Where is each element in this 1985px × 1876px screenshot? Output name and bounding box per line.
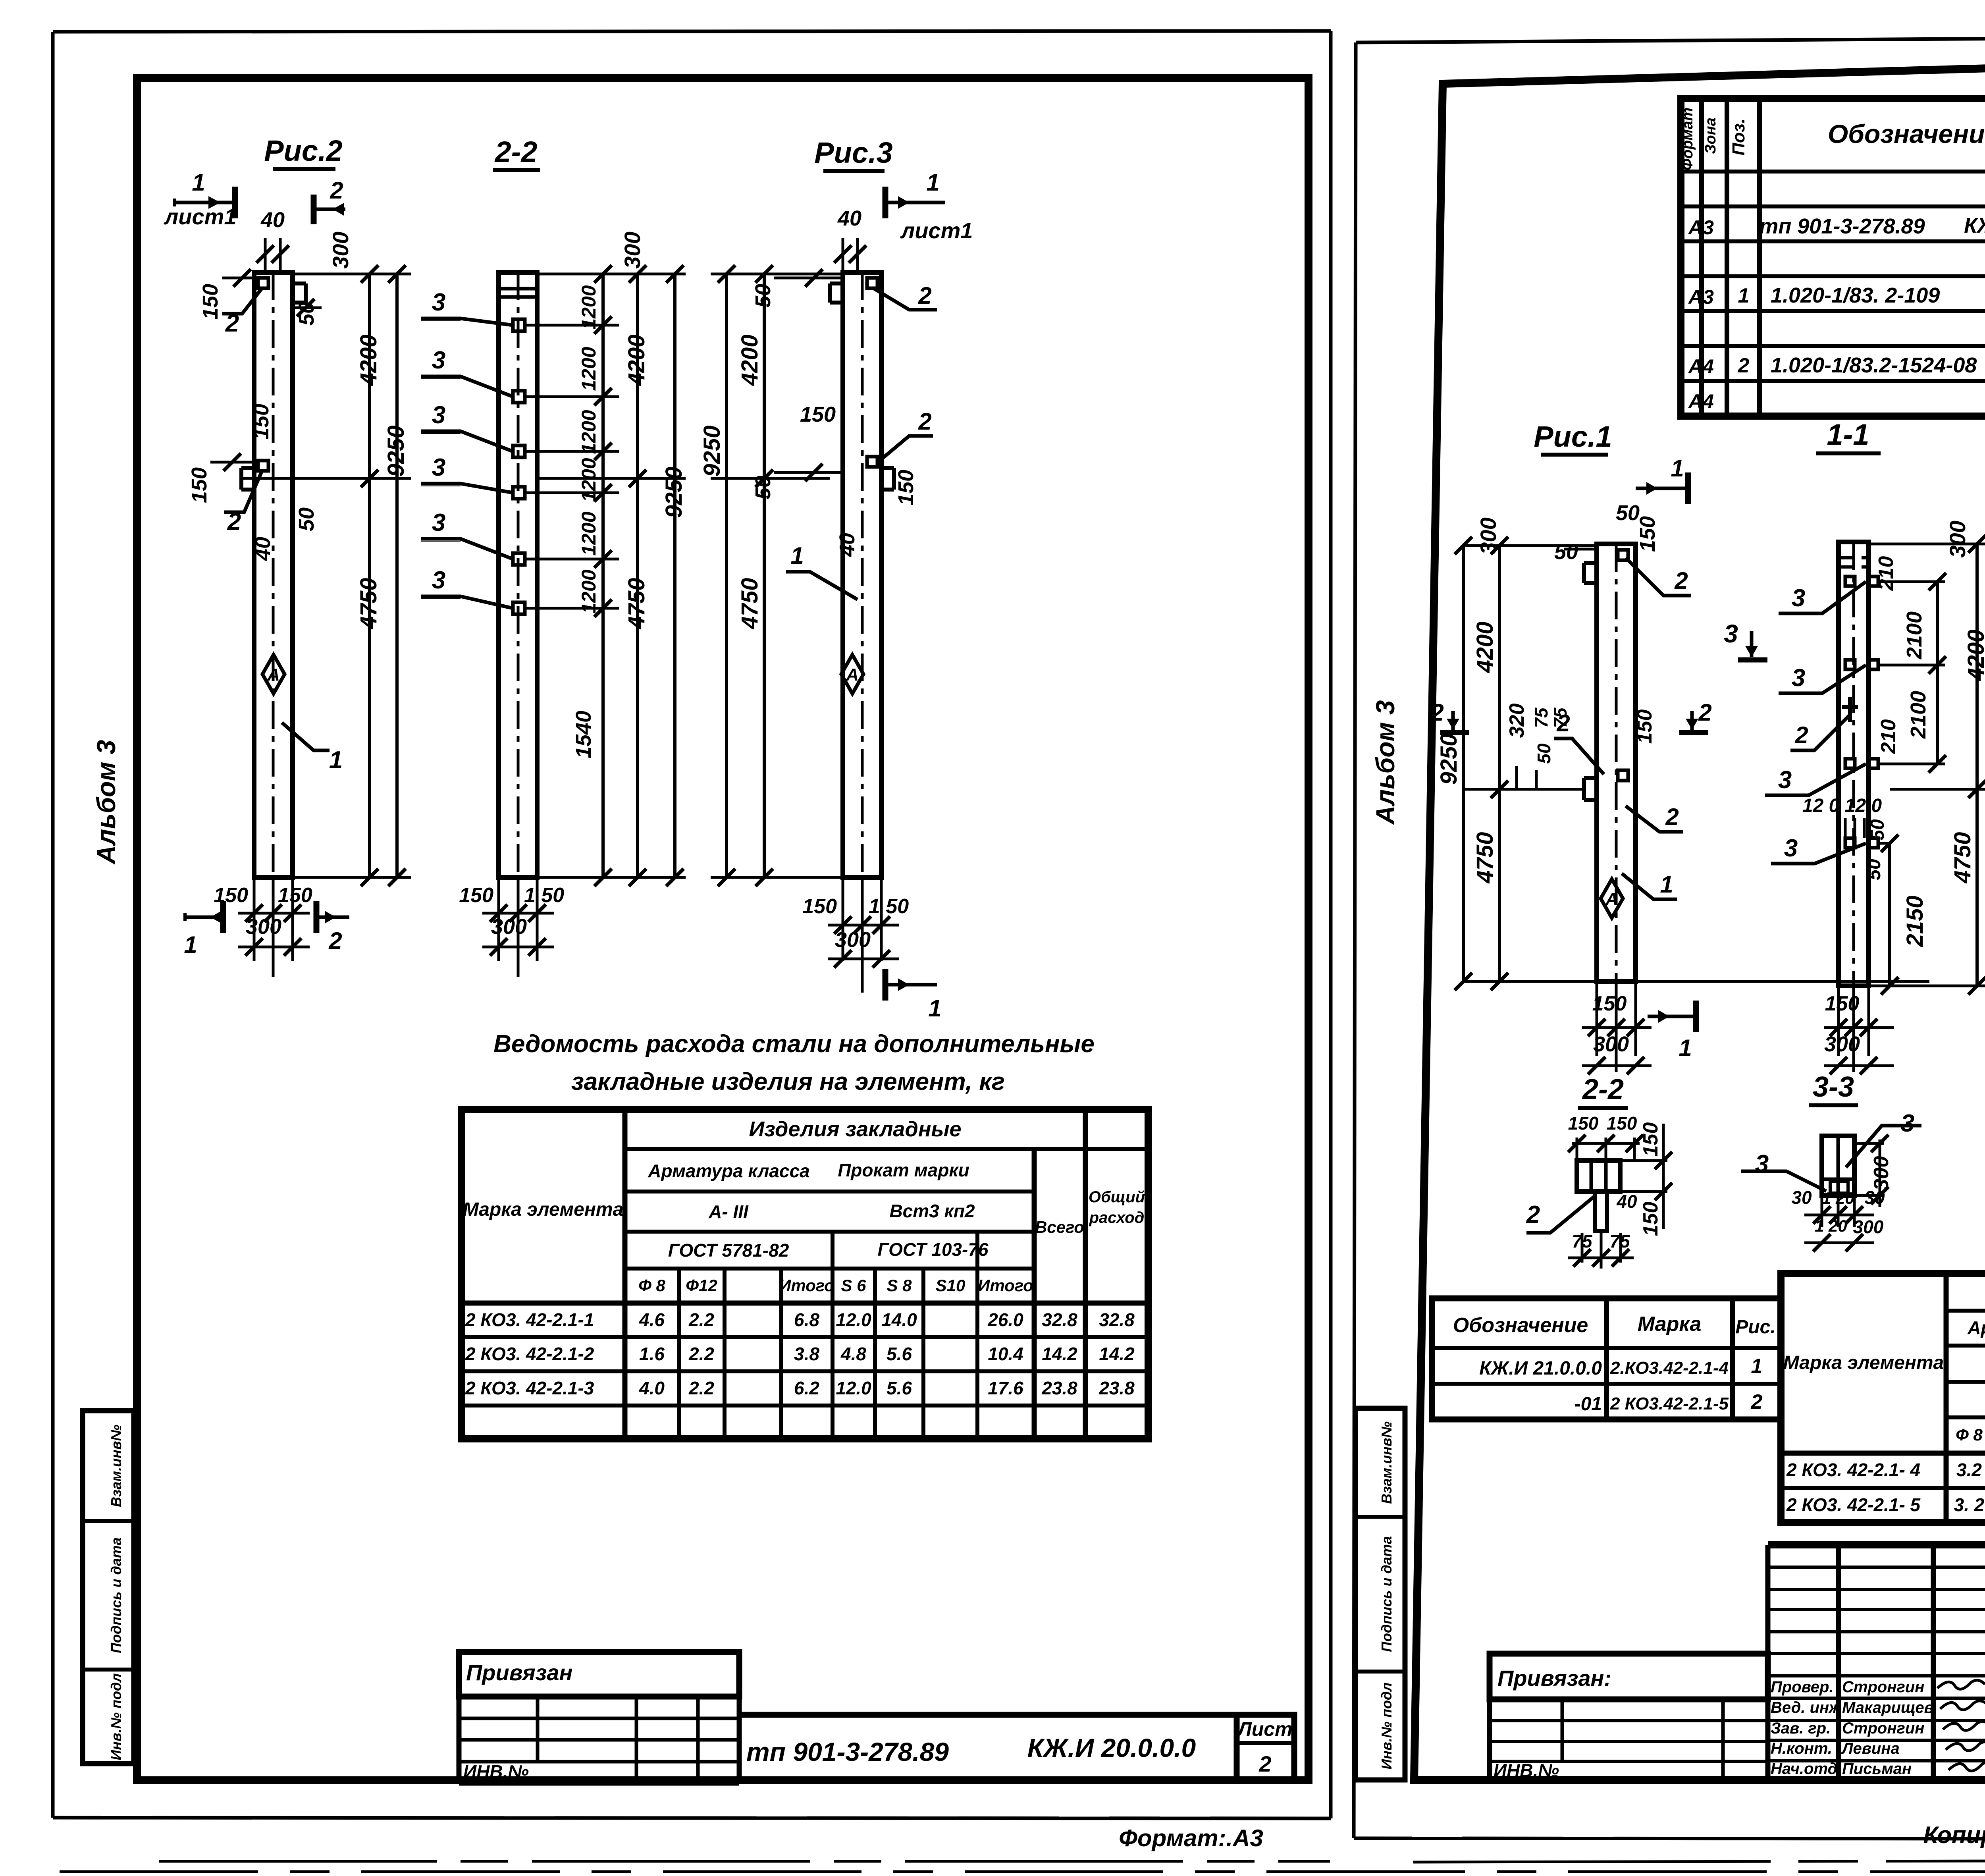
svg-text:2150: 2150 bbox=[1902, 895, 1928, 947]
svg-text:1200: 1200 bbox=[578, 347, 600, 391]
svg-text:Рис.3: Рис.3 bbox=[814, 136, 892, 169]
right title block top line bbox=[1768, 1541, 1985, 1548]
svg-text:150: 150 bbox=[198, 284, 222, 320]
svg-text:2: 2 bbox=[1674, 567, 1688, 594]
svg-text:17.6: 17.6 bbox=[988, 1378, 1023, 1398]
svg-text:Альбом 3: Альбом 3 bbox=[1370, 700, 1400, 825]
Рис.1 section mark 1 bottom bbox=[1648, 1015, 1695, 1018]
svg-text:Изделия закладные: Изделия закладные bbox=[749, 1117, 961, 1141]
svg-text:2100: 2100 bbox=[1902, 611, 1926, 659]
svg-text:1: 1 bbox=[1671, 455, 1684, 482]
Рис.1 section mark 1 top bbox=[1636, 487, 1687, 490]
svg-text:1: 1 bbox=[329, 746, 343, 774]
svg-text:3: 3 bbox=[1784, 835, 1798, 862]
1-1 leader 3 (1) bbox=[1779, 582, 1866, 613]
Рис.3 column body bbox=[843, 272, 881, 877]
2-2 column body bbox=[499, 272, 537, 877]
svg-text:4.0: 4.0 bbox=[639, 1378, 665, 1398]
svg-text:300: 300 bbox=[1945, 521, 1970, 557]
1-1 embed plate 3 bbox=[1845, 759, 1855, 768]
svg-text:2: 2 bbox=[1430, 699, 1443, 726]
svg-text:300: 300 bbox=[1593, 1032, 1629, 1056]
1-1 embed plate 4 bbox=[1845, 838, 1855, 848]
1-1 top cap dashed lines bbox=[1839, 556, 1869, 559]
svg-text:12 0 12 0: 12 0 12 0 bbox=[1802, 795, 1882, 816]
svg-text:14.0: 14.0 bbox=[881, 1309, 917, 1330]
svg-text:Копировал: Алешикова: Копировал: Алешикова bbox=[1923, 1822, 1985, 1848]
Рис.3 section mark 1 лист1 top bbox=[886, 201, 945, 204]
2-2 leader 3 (6) bbox=[421, 596, 513, 608]
svg-text:Зона: Зона bbox=[1702, 118, 1719, 154]
Рис.1 marker diamond А bbox=[1601, 879, 1623, 918]
svg-text:320: 320 bbox=[1505, 704, 1528, 738]
Рис.1 centerline bbox=[1615, 544, 1618, 981]
svg-text:1: 1 bbox=[1660, 871, 1673, 898]
svg-text:Привязан:: Привязан: bbox=[1497, 1666, 1611, 1691]
svg-text:40: 40 bbox=[835, 533, 859, 557]
Рис.2 centerline bbox=[272, 272, 275, 877]
svg-text:4750: 4750 bbox=[1950, 832, 1975, 883]
Рис.3 leader 1 bbox=[786, 572, 858, 600]
Рис.3 extension lines left bbox=[711, 273, 843, 276]
2-2 leader 2 bbox=[1526, 1195, 1596, 1233]
Рис.2 embed plate mid bbox=[258, 461, 268, 471]
2-2 leader 3 (2) bbox=[421, 376, 513, 397]
Рис.3 leader 2 mid bbox=[877, 436, 933, 463]
svg-text:2: 2 bbox=[328, 927, 342, 954]
svg-text:Письман: Письман bbox=[1842, 1760, 1912, 1778]
svg-text:4.8: 4.8 bbox=[840, 1344, 866, 1364]
2-2 bottom dims bbox=[497, 877, 500, 961]
svg-text:3: 3 bbox=[432, 567, 445, 594]
svg-text:А: А bbox=[846, 665, 859, 684]
svg-text:10.4: 10.4 bbox=[988, 1344, 1023, 1364]
2-2 embed plate 6 bbox=[513, 602, 525, 614]
svg-text:150: 150 bbox=[214, 884, 248, 907]
svg-text:Привязан: Привязан bbox=[466, 1660, 572, 1685]
svg-text:150: 150 bbox=[1639, 1122, 1662, 1157]
svg-text:S10: S10 bbox=[936, 1276, 966, 1295]
svg-text:9250: 9250 bbox=[1436, 733, 1462, 785]
svg-text:50: 50 bbox=[1534, 743, 1554, 764]
2-2 section stem bbox=[1595, 1192, 1607, 1231]
Рис.3 leader 2 top bbox=[873, 288, 937, 310]
svg-text:ГОСТ 5781-82: ГОСТ 5781-82 bbox=[668, 1240, 789, 1261]
2-2 centerline bbox=[517, 272, 520, 877]
svg-text:3: 3 bbox=[432, 401, 445, 429]
right bottom small grid bbox=[1490, 1719, 1768, 1722]
svg-text:1200: 1200 bbox=[578, 410, 600, 454]
svg-text:150: 150 bbox=[800, 403, 836, 426]
3-3 leader 3 top bbox=[1846, 1126, 1921, 1167]
svg-text:2: 2 bbox=[225, 310, 239, 337]
svg-text:3: 3 bbox=[1724, 619, 1738, 648]
svg-text:1: 1 bbox=[790, 542, 804, 569]
svg-text:3. 2: 3. 2 bbox=[1954, 1494, 1985, 1515]
Рис.3 section mark 1 bottom bbox=[886, 983, 937, 987]
svg-text:2: 2 bbox=[330, 177, 343, 204]
svg-text:12.0: 12.0 bbox=[836, 1378, 871, 1398]
svg-text:4200: 4200 bbox=[1472, 621, 1498, 673]
svg-text:Марка элемента: Марка элемента bbox=[463, 1199, 624, 1220]
svg-text:Общий: Общий bbox=[1089, 1188, 1145, 1206]
svg-text:тп 901-3-278.89: тп 901-3-278.89 bbox=[746, 1737, 949, 1766]
svg-text:КЖ.И ТУ: КЖ.И ТУ bbox=[1964, 214, 1985, 237]
svg-text:тп 901-3-278.89: тп 901-3-278.89 bbox=[1759, 214, 1925, 238]
svg-text:Макарищев: Макарищев bbox=[1842, 1699, 1934, 1716]
Рис.1 leader 2 mid bbox=[1554, 738, 1604, 774]
Рис.2 bottom dims bbox=[253, 877, 256, 961]
svg-text:Формат:.А3: Формат:.А3 bbox=[1119, 1825, 1263, 1851]
svg-text:1200: 1200 bbox=[578, 511, 600, 555]
svg-text:1540: 1540 bbox=[572, 711, 595, 758]
svg-text:А4: А4 bbox=[1688, 355, 1714, 378]
1-1 leader 3 (2) bbox=[1779, 665, 1866, 693]
svg-text:300: 300 bbox=[328, 231, 353, 268]
svg-text:лист1: лист1 bbox=[900, 218, 973, 243]
1-1 dim 2150 bbox=[1888, 843, 1891, 986]
svg-text:50: 50 bbox=[295, 507, 318, 531]
svg-text:1-1: 1-1 bbox=[1827, 418, 1869, 451]
left bottom cut line bbox=[159, 1860, 1330, 1863]
2-2 leader 3 (1) bbox=[421, 318, 513, 325]
Рис.1 leader 2 top bbox=[1626, 558, 1691, 596]
Рис.2 leader 2 mid bbox=[224, 471, 262, 512]
spec table outline bbox=[1681, 98, 1985, 416]
svg-text:1: 1 bbox=[928, 995, 941, 1022]
2-2 top cap lines bbox=[499, 287, 537, 291]
2-2 leader 3 (3) bbox=[421, 431, 513, 451]
svg-text:Ф 8: Ф 8 bbox=[638, 1276, 665, 1295]
embed items table outline bbox=[1781, 1274, 1985, 1523]
svg-text:ГОСТ 103-76: ГОСТ 103-76 bbox=[878, 1239, 989, 1260]
svg-text:2: 2 bbox=[1665, 804, 1679, 830]
spec table verticals bbox=[1699, 98, 1704, 416]
svg-text:Ведомость расхода стали на доп: Ведомость расхода стали на дополнительны… bbox=[493, 1030, 1095, 1058]
svg-text:ИНВ.№: ИНВ.№ bbox=[1494, 1760, 1559, 1781]
svg-text:300: 300 bbox=[620, 231, 645, 268]
svg-text:Обозначение: Обозначение bbox=[1828, 119, 1985, 148]
svg-text:Зав. гр.: Зав. гр. bbox=[1771, 1720, 1831, 1737]
Рис.2 marker diamond А bbox=[262, 655, 285, 694]
Рис.2 embed plate top bbox=[258, 278, 268, 288]
left Лист box bbox=[1237, 1715, 1294, 1780]
svg-text:2: 2 bbox=[1738, 354, 1750, 377]
1-1 leader 3 (4) bbox=[1771, 843, 1866, 864]
svg-text:150: 150 bbox=[1633, 710, 1656, 744]
svg-text:Формат: Формат bbox=[1679, 108, 1696, 171]
svg-text:150: 150 bbox=[894, 470, 918, 505]
svg-text:1.020-1/83. 2-109: 1.020-1/83. 2-109 bbox=[1771, 283, 1940, 307]
svg-text:150: 150 bbox=[1568, 1113, 1599, 1134]
svg-text:2: 2 bbox=[227, 508, 241, 536]
Рис.2 section mark 1 bottom bbox=[183, 913, 187, 921]
1-1 leader 2 mid bbox=[1790, 715, 1850, 750]
Рис.3 column mid step right bbox=[881, 466, 894, 470]
svg-text:50: 50 bbox=[1864, 859, 1885, 880]
Рис.2 extension lines right bbox=[293, 273, 411, 276]
2-2 leader 3 (5) bbox=[421, 539, 513, 559]
svg-text:150: 150 bbox=[802, 895, 837, 918]
2-2 extension lines bbox=[537, 273, 686, 276]
svg-text:2: 2 bbox=[918, 282, 931, 309]
Рис.1 embed plate mid bbox=[1618, 770, 1628, 781]
2-2 dim line 4200/4750 bbox=[636, 274, 639, 478]
designation table grid bbox=[1432, 1298, 1781, 1419]
svg-text:1 50: 1 50 bbox=[524, 884, 564, 907]
1-1 centerline bbox=[1852, 542, 1855, 986]
svg-text:2 КО3. 42-2.1- 5: 2 КО3. 42-2.1- 5 bbox=[1786, 1494, 1921, 1515]
svg-text:1 50: 1 50 bbox=[869, 895, 909, 918]
svg-text:23.8: 23.8 bbox=[1098, 1378, 1135, 1398]
svg-text:32.8: 32.8 bbox=[1099, 1309, 1135, 1330]
svg-text:300: 300 bbox=[1853, 1217, 1884, 1237]
Рис.1 leader 2 lower bbox=[1626, 806, 1683, 832]
Рис.2 section mark 2 bottom bbox=[317, 916, 349, 919]
1-1 bottom dims bbox=[1837, 986, 1840, 1056]
svg-text:2-2: 2-2 bbox=[494, 135, 538, 168]
Рис.2 leader 1 bbox=[282, 723, 330, 750]
svg-text:2 КО3.42-2.1-5: 2 КО3.42-2.1-5 bbox=[1610, 1394, 1729, 1413]
svg-text:9250: 9250 bbox=[661, 467, 687, 518]
svg-text:Взам.инв№: Взам.инв№ bbox=[108, 1425, 124, 1507]
svg-text:Нач.отд: Нач.отд bbox=[1771, 1760, 1837, 1778]
svg-text:Прокат марки: Прокат марки bbox=[838, 1160, 969, 1180]
Рис.2 dim line 9250 bbox=[395, 274, 399, 877]
svg-text:40: 40 bbox=[251, 537, 275, 561]
svg-text:расход: расход bbox=[1089, 1209, 1145, 1226]
svg-text:Обозначение: Обозначение bbox=[1453, 1314, 1588, 1337]
Рис.3 dim line 4200/4750 bbox=[763, 274, 766, 478]
svg-text:1: 1 bbox=[926, 169, 939, 196]
svg-text:3: 3 bbox=[1755, 1150, 1769, 1178]
Рис.3 bottom dims bbox=[842, 877, 844, 961]
Рис.1 dim line 9250 bbox=[1462, 546, 1465, 981]
svg-text:50: 50 bbox=[1867, 819, 1888, 841]
Рис.1 leader 1 bbox=[1622, 873, 1677, 899]
svg-text:6.8: 6.8 bbox=[794, 1309, 819, 1330]
svg-text:3: 3 bbox=[1792, 664, 1805, 692]
svg-text:закладные изделия на элемент,: закладные изделия на элемент, кг bbox=[571, 1068, 1005, 1095]
svg-text:6.2: 6.2 bbox=[794, 1378, 819, 1398]
right sheet stamp column bbox=[1355, 1408, 1405, 1780]
svg-text:4200: 4200 bbox=[356, 334, 382, 386]
svg-text:Альбом 3: Альбом 3 bbox=[91, 740, 121, 865]
Рис.1 mid step left bbox=[1584, 776, 1597, 780]
Рис.1 extension lines left bbox=[1463, 544, 1597, 547]
Рис.3 centerline bbox=[861, 272, 864, 877]
Рис.1 column body bbox=[1597, 544, 1636, 981]
svg-text:1200: 1200 bbox=[578, 569, 600, 613]
left sheet outer border bbox=[53, 31, 1331, 32]
svg-text:А3: А3 bbox=[1688, 286, 1714, 308]
svg-text:Провер.: Провер. bbox=[1771, 1678, 1834, 1696]
svg-text:1.6: 1.6 bbox=[639, 1344, 665, 1364]
svg-text:150: 150 bbox=[249, 404, 273, 440]
svg-text:2 КО3. 42-2.1-3: 2 КО3. 42-2.1-3 bbox=[465, 1378, 594, 1398]
3-3 section body bbox=[1822, 1136, 1854, 1195]
svg-text:2: 2 bbox=[1751, 1390, 1763, 1413]
svg-text:32.8: 32.8 bbox=[1042, 1309, 1077, 1330]
svg-text:1200: 1200 bbox=[578, 458, 600, 502]
svg-text:3.8: 3.8 bbox=[794, 1344, 819, 1364]
Рис.2 section mark 2 top bbox=[311, 195, 317, 224]
svg-text:Рис.1: Рис.1 bbox=[1534, 420, 1612, 453]
svg-text:2 КО3. 42-2.1-1: 2 КО3. 42-2.1-1 bbox=[465, 1309, 594, 1330]
svg-text:Поз.: Поз. bbox=[1729, 118, 1748, 155]
svg-text:150: 150 bbox=[1636, 516, 1659, 552]
svg-text:Арматура класса: Арматура класса bbox=[648, 1161, 810, 1181]
svg-text:210: 210 bbox=[1875, 556, 1898, 591]
svg-text:Вед. инж: Вед. инж bbox=[1771, 1699, 1842, 1716]
svg-text:1: 1 bbox=[184, 931, 197, 958]
right sheet inner frame bbox=[1414, 52, 1985, 1780]
svg-text:Итого: Итого bbox=[978, 1276, 1033, 1295]
svg-text:Взам.инв№: Взам.инв№ bbox=[1378, 1421, 1395, 1504]
svg-text:300: 300 bbox=[1870, 1156, 1893, 1191]
svg-text:Арматура класса: Арматура класса bbox=[1967, 1317, 1985, 1338]
svg-text:Стронгин: Стронгин bbox=[1842, 1678, 1924, 1696]
svg-text:Итого: Итого bbox=[779, 1276, 834, 1295]
svg-text:4.6: 4.6 bbox=[639, 1309, 665, 1330]
2-2 leader 3 (4) bbox=[421, 484, 513, 493]
Рис.1 dim line 4200/4750 bbox=[1498, 546, 1501, 789]
left bottom small table bbox=[459, 1717, 739, 1720]
svg-text:Ф12: Ф12 bbox=[686, 1276, 717, 1295]
svg-text:300: 300 bbox=[491, 915, 527, 939]
right bottom cut line bbox=[1413, 1860, 1985, 1862]
Рис.3 marker diamond А bbox=[841, 655, 863, 694]
svg-text:2: 2 bbox=[918, 408, 931, 435]
svg-text:2-2: 2-2 bbox=[1582, 1074, 1624, 1105]
svg-text:А3: А3 bbox=[1688, 216, 1714, 239]
svg-text:Лист: Лист bbox=[1237, 1718, 1292, 1740]
svg-text:300: 300 bbox=[246, 915, 281, 939]
1-1 dim line 4200/4750 bbox=[1869, 543, 1985, 546]
2-2 dim line 9250 bbox=[673, 274, 676, 877]
svg-text:40: 40 bbox=[1616, 1191, 1637, 1212]
steel table grid bbox=[462, 1109, 1148, 1439]
svg-text:4200: 4200 bbox=[737, 334, 763, 386]
svg-text:3-3: 3-3 bbox=[1813, 1071, 1854, 1103]
svg-text:3: 3 bbox=[432, 509, 445, 536]
svg-text:4200: 4200 bbox=[624, 334, 649, 386]
svg-text:2: 2 bbox=[1698, 699, 1711, 726]
3-3 leader 3 left bbox=[1741, 1171, 1826, 1191]
svg-text:2.2: 2.2 bbox=[688, 1378, 714, 1398]
svg-text:4750: 4750 bbox=[737, 578, 763, 629]
svg-text:КЖ.И 20.0.0.0: КЖ.И 20.0.0.0 bbox=[1027, 1733, 1196, 1762]
svg-text:4750: 4750 bbox=[1472, 832, 1498, 883]
svg-text:Рис.: Рис. bbox=[1735, 1317, 1775, 1338]
svg-text:14.2: 14.2 bbox=[1042, 1344, 1077, 1364]
svg-text:75: 75 bbox=[1531, 707, 1551, 728]
svg-text:Рис.2: Рис.2 bbox=[264, 134, 342, 167]
Рис.2 leader 2 top bbox=[222, 288, 262, 314]
svg-text:Инв.№ подл: Инв.№ подл bbox=[108, 1673, 124, 1760]
svg-text:Н.конт.: Н.конт. bbox=[1771, 1740, 1832, 1757]
svg-text:300: 300 bbox=[1824, 1032, 1860, 1056]
right Привязан box bbox=[1490, 1654, 1768, 1699]
svg-text:-01: -01 bbox=[1575, 1394, 1602, 1415]
svg-text:Левина: Левина bbox=[1841, 1740, 1900, 1757]
svg-text:1: 1 bbox=[1738, 284, 1750, 307]
Рис.2 dim line 4200/4750 bbox=[368, 274, 371, 478]
1-1 leader 3 (3) bbox=[1765, 764, 1866, 795]
svg-text:Всего: Всего bbox=[1035, 1218, 1084, 1236]
svg-text:150: 150 bbox=[1639, 1202, 1662, 1236]
svg-text:1200: 1200 bbox=[578, 285, 600, 329]
svg-text:Ф 8: Ф 8 bbox=[1956, 1425, 1983, 1444]
svg-text:4750: 4750 bbox=[624, 578, 649, 629]
svg-text:2: 2 bbox=[1258, 1751, 1271, 1776]
svg-text:4200: 4200 bbox=[1963, 629, 1985, 681]
svg-text:2 КО3. 42-2.1-2: 2 КО3. 42-2.1-2 bbox=[465, 1344, 594, 1364]
svg-text:Марка: Марка bbox=[1638, 1313, 1702, 1336]
svg-text:Марка элемента: Марка элемента bbox=[1783, 1352, 1944, 1373]
svg-text:Вст3 кп2: Вст3 кп2 bbox=[889, 1201, 975, 1221]
svg-text:А- III: А- III bbox=[708, 1201, 749, 1222]
svg-text:5.6: 5.6 bbox=[887, 1378, 912, 1398]
svg-text:50: 50 bbox=[1554, 540, 1578, 564]
embed items table horizontals bbox=[1946, 1309, 1985, 1313]
svg-text:3: 3 bbox=[1778, 766, 1792, 794]
svg-text:210: 210 bbox=[1877, 719, 1900, 754]
svg-text:1: 1 bbox=[1679, 1035, 1692, 1061]
Рис.2 column mid step bbox=[241, 466, 254, 470]
svg-text:А: А bbox=[1605, 889, 1618, 909]
svg-text:1: 1 bbox=[1751, 1355, 1763, 1378]
svg-text:150: 150 bbox=[1592, 992, 1627, 1015]
svg-text:150: 150 bbox=[278, 884, 312, 907]
svg-text:30: 30 bbox=[1791, 1187, 1812, 1208]
svg-text:Инв.№ подл: Инв.№ подл bbox=[1378, 1682, 1395, 1769]
Рис.2 column top notch bbox=[293, 301, 306, 305]
1-1 embed plate 1 bbox=[1845, 576, 1855, 586]
svg-text:4750: 4750 bbox=[356, 578, 382, 629]
svg-text:150: 150 bbox=[459, 884, 493, 907]
svg-text:лист1: лист1 bbox=[163, 204, 236, 229]
svg-text:3: 3 bbox=[432, 289, 445, 316]
2-2 section body bbox=[1577, 1161, 1620, 1192]
Рис.1 top notch left bbox=[1584, 561, 1597, 565]
svg-text:2.КО3.42-2.1-4: 2.КО3.42-2.1-4 bbox=[1610, 1358, 1729, 1378]
svg-text:5.6: 5.6 bbox=[887, 1344, 912, 1364]
Рис.3 embed plate top bbox=[867, 278, 877, 288]
svg-text:3: 3 bbox=[1901, 1110, 1914, 1137]
signature table bbox=[1765, 1545, 1771, 1781]
svg-text:3.2: 3.2 bbox=[1956, 1460, 1982, 1480]
svg-text:А4: А4 bbox=[1688, 390, 1714, 413]
svg-text:30: 30 bbox=[1864, 1187, 1885, 1208]
Рис.3 dim line 9250 bbox=[725, 274, 728, 877]
svg-text:3: 3 bbox=[432, 347, 445, 374]
svg-text:2100: 2100 bbox=[1906, 691, 1930, 739]
2-2 embed plate 1 bbox=[513, 319, 525, 331]
svg-text:9250: 9250 bbox=[383, 425, 409, 476]
embed items table verticals bbox=[1944, 1274, 1949, 1523]
svg-text:23.8: 23.8 bbox=[1041, 1378, 1077, 1398]
svg-text:1.020-1/83.2-1524-08: 1.020-1/83.2-1524-08 bbox=[1771, 353, 1977, 377]
left sheet stamp column bbox=[83, 1411, 134, 1764]
Рис.3 column top notch left bbox=[830, 281, 843, 285]
svg-text:150: 150 bbox=[187, 467, 211, 503]
right sheet outer border bbox=[1356, 35, 1985, 42]
svg-text:300: 300 bbox=[835, 928, 871, 952]
2-2 embed plate 2 bbox=[513, 391, 525, 403]
svg-text:S 6: S 6 bbox=[841, 1276, 866, 1295]
2-2 embed plate 5 bbox=[513, 553, 525, 565]
